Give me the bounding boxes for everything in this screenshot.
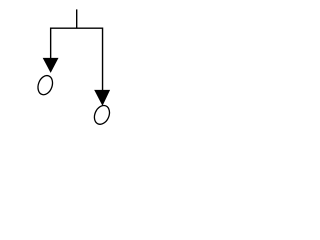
wire: top stub	[76, 9, 78, 28]
wire: fork horizontal with left and right vertical drops	[51, 28, 103, 90]
node B: right ellipse	[92, 103, 113, 127]
node A: left ellipse	[35, 74, 55, 97]
arrowhead left	[43, 58, 59, 73]
arrowhead right	[94, 90, 110, 106]
